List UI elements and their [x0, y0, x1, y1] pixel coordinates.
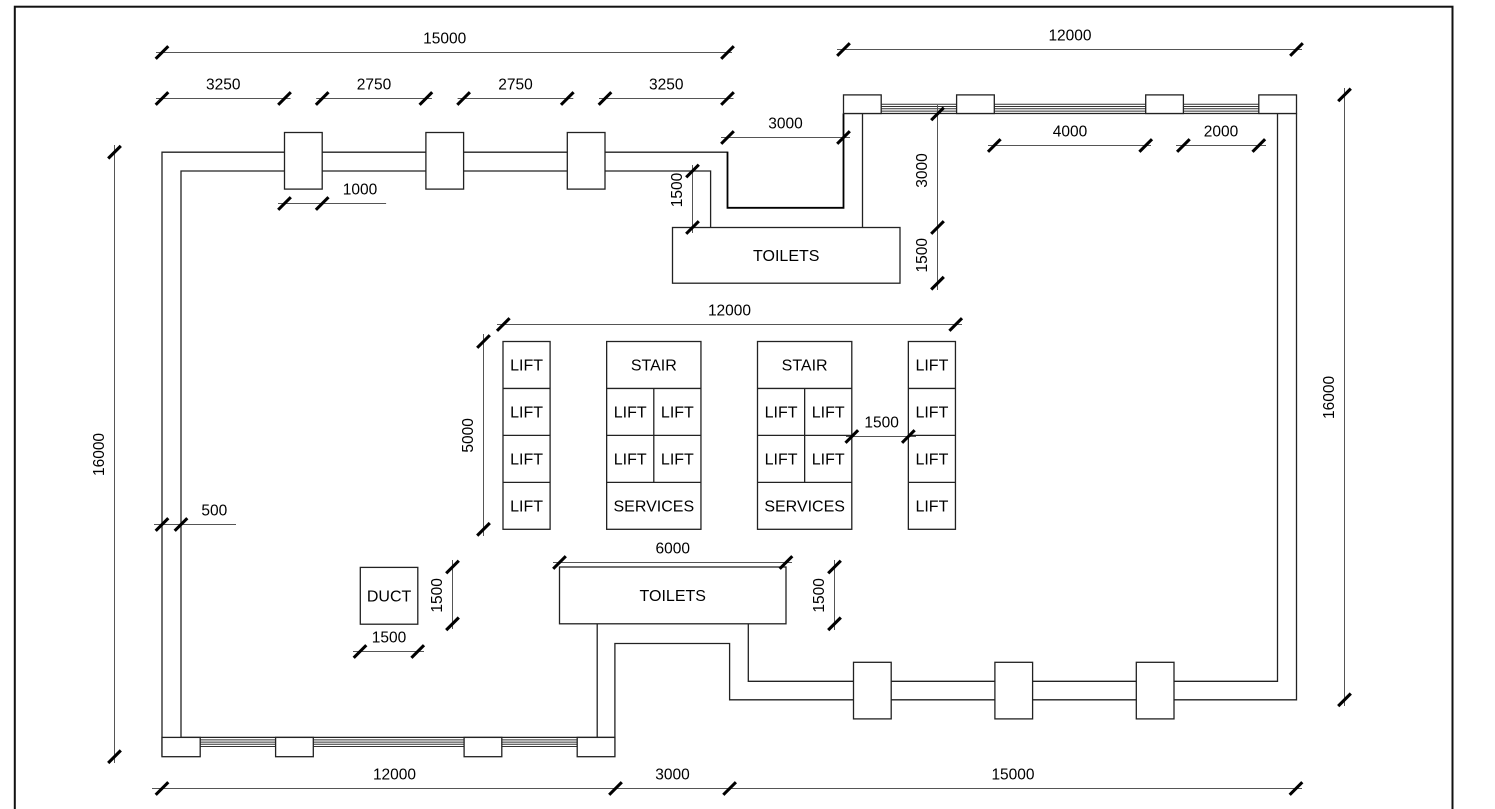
svg-text:15000: 15000	[423, 31, 466, 48]
column bottom-right wall 1	[854, 662, 892, 719]
dimension 1500 lower toilets west	[429, 560, 459, 630]
svg-text:16000: 16000	[91, 433, 108, 476]
dimension 5000 core	[460, 334, 490, 536]
svg-text:12000: 12000	[373, 767, 416, 784]
svg-text:1500: 1500	[914, 238, 931, 273]
column top-left wall 1	[285, 133, 323, 190]
svg-text:5000: 5000	[460, 418, 477, 453]
svg-text:LIFT: LIFT	[614, 405, 647, 422]
column top-right wall 2	[1146, 95, 1184, 114]
svg-text:LIFT: LIFT	[765, 405, 798, 422]
svg-text:1500: 1500	[669, 172, 686, 207]
svg-text:LIFT: LIFT	[915, 358, 948, 375]
column bottom-left wall 2	[464, 737, 502, 756]
corner block top-right wall west	[844, 95, 882, 114]
column bottom-left wall 1	[276, 737, 314, 756]
dimension 6000 lower toilets	[553, 541, 792, 569]
svg-text:STAIR: STAIR	[782, 358, 828, 375]
inner wall: top-right west side	[862, 114, 864, 228]
svg-text:6000: 6000	[656, 541, 691, 558]
core lift stack west	[503, 342, 550, 530]
svg-text:LIFT: LIFT	[812, 451, 845, 468]
DUCT shaft	[360, 567, 418, 624]
end block bottom-left wall east	[577, 737, 615, 756]
dimension 12000 core	[497, 303, 962, 331]
svg-text:12000: 12000	[708, 303, 751, 320]
lower TOILETS room	[560, 567, 787, 624]
dimension 12000 top-right	[837, 28, 1303, 56]
column top-left wall 3	[567, 133, 605, 190]
dimension 1500 notch west	[669, 165, 699, 234]
core lift stack east	[908, 342, 955, 530]
svg-text:3250: 3250	[206, 77, 241, 94]
svg-text:1500: 1500	[429, 578, 446, 613]
svg-text:1500: 1500	[864, 415, 899, 432]
svg-text:1500: 1500	[372, 630, 407, 647]
dimension 500 wall thickness	[154, 503, 236, 531]
dimension 1000 column	[278, 182, 386, 210]
dimension 1500 core gap	[846, 415, 917, 443]
dimension 1500 lower toilets east	[811, 560, 841, 630]
column top-right wall 1	[957, 95, 995, 114]
svg-text:3000: 3000	[655, 767, 690, 784]
dimensions 12000/3000/15000 bottom	[152, 767, 1302, 795]
svg-text:3000: 3000	[914, 153, 931, 188]
dimension 4000 top-right wall	[988, 124, 1152, 152]
outer wall: notch U (bold)	[728, 114, 844, 208]
svg-text:2000: 2000	[1204, 124, 1239, 141]
svg-text:STAIR: STAIR	[631, 358, 677, 375]
svg-text:SERVICES: SERVICES	[613, 498, 694, 515]
outer wall: step + bottom-right + right	[615, 114, 1297, 757]
dimension 16000 right	[1321, 88, 1351, 706]
dimension 16000 left	[91, 145, 121, 763]
dimensions 3250/2750/2750/3250 top	[156, 77, 734, 105]
svg-text:12000: 12000	[1048, 28, 1091, 45]
column top-left wall 2	[426, 133, 464, 190]
core stair block east	[758, 342, 852, 530]
inner wall: bottom-right + right	[748, 114, 1277, 682]
dimension 1500 duct	[353, 630, 424, 658]
glazing hatch top-right wall	[844, 104, 1297, 111]
upper TOILETS room	[673, 228, 901, 284]
corner block bottom-left wall west	[162, 737, 200, 756]
inner wall: left + top-left + notch west	[181, 171, 711, 737]
svg-text:LIFT: LIFT	[765, 451, 798, 468]
column bottom-right wall 3	[1136, 662, 1174, 719]
svg-text:LIFT: LIFT	[915, 405, 948, 422]
svg-text:1000: 1000	[343, 182, 378, 199]
svg-text:2750: 2750	[498, 77, 533, 94]
svg-text:LIFT: LIFT	[510, 405, 543, 422]
svg-text:3250: 3250	[649, 77, 684, 94]
core stair block west	[607, 342, 701, 530]
svg-text:LIFT: LIFT	[510, 498, 543, 515]
corner block top-right wall east	[1259, 95, 1297, 114]
svg-text:LIFT: LIFT	[614, 451, 647, 468]
glazing hatch bottom-left wall	[200, 740, 577, 747]
svg-text:LIFT: LIFT	[915, 498, 948, 515]
inner wall: bottom-left face line	[181, 736, 615, 738]
svg-text:LIFT: LIFT	[661, 405, 694, 422]
dimension 3000/1500 notch east	[914, 105, 944, 290]
svg-text:SERVICES: SERVICES	[764, 498, 845, 515]
svg-text:LIFT: LIFT	[510, 451, 543, 468]
svg-text:3000: 3000	[768, 116, 803, 133]
svg-text:TOILETS: TOILETS	[753, 248, 819, 265]
svg-text:LIFT: LIFT	[915, 451, 948, 468]
dimension 3000 notch	[721, 116, 850, 144]
svg-text:2750: 2750	[357, 77, 392, 94]
svg-text:LIFT: LIFT	[812, 405, 845, 422]
wall: lower toilets left descender	[596, 624, 598, 738]
svg-text:DUCT: DUCT	[367, 588, 412, 605]
svg-text:TOILETS: TOILETS	[640, 588, 706, 605]
svg-text:15000: 15000	[991, 767, 1034, 784]
dimension 2000 top-right wall	[1176, 124, 1266, 152]
svg-text:LIFT: LIFT	[661, 451, 694, 468]
dimension 15000 top	[156, 31, 734, 59]
svg-text:4000: 4000	[1053, 124, 1088, 141]
svg-text:1500: 1500	[811, 578, 828, 613]
svg-text:500: 500	[201, 503, 227, 520]
inner wall: top-right face line	[844, 113, 1297, 115]
svg-text:LIFT: LIFT	[510, 358, 543, 375]
outer wall: left + top-left	[162, 152, 728, 757]
svg-text:16000: 16000	[1321, 375, 1338, 418]
column bottom-right wall 2	[995, 662, 1033, 719]
